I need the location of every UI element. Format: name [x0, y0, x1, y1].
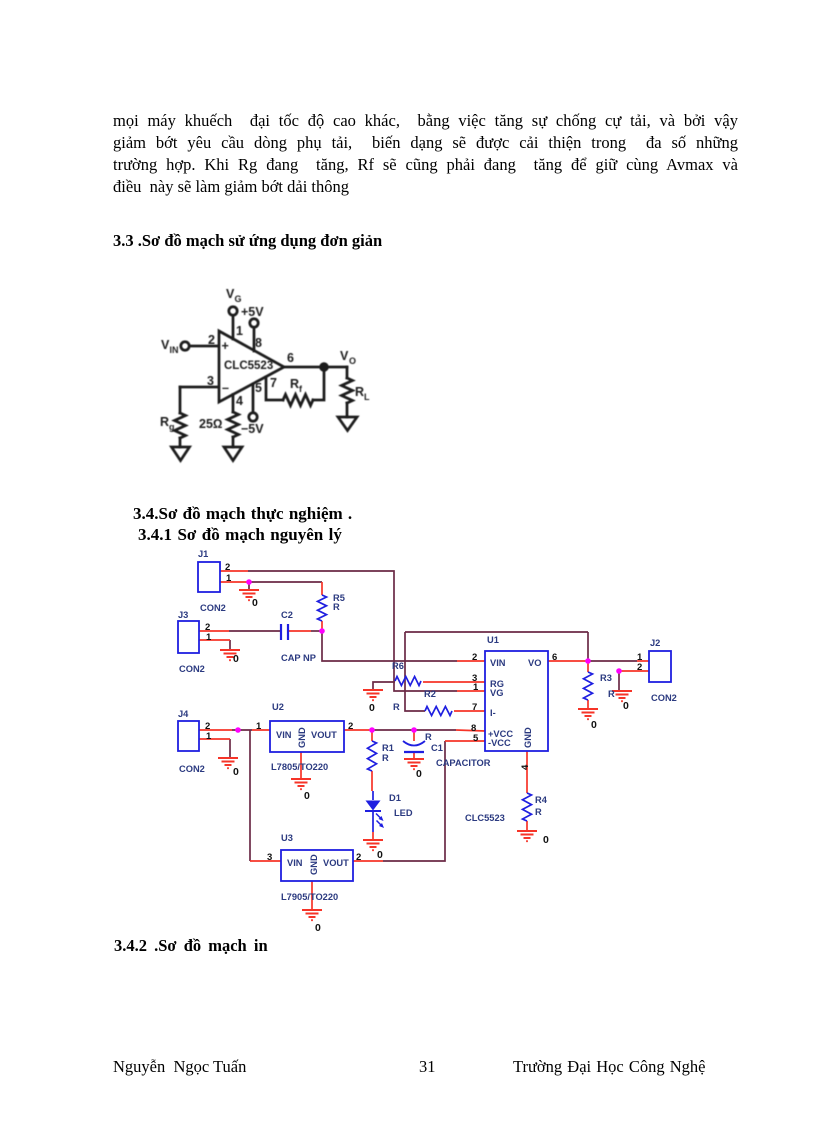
svg-text:J1: J1 [198, 549, 208, 559]
svg-text:0: 0 [543, 834, 549, 846]
svg-text:R: R [333, 602, 340, 612]
svg-text:1: 1 [226, 573, 232, 584]
svg-text:5: 5 [473, 733, 479, 744]
svg-text:R: R [608, 689, 615, 699]
svg-text:VIN: VIN [287, 858, 303, 868]
svg-text:R: R [425, 732, 432, 742]
svg-text:R4: R4 [535, 795, 548, 805]
svg-text:J2: J2 [650, 638, 660, 648]
svg-text:7: 7 [472, 702, 477, 713]
svg-text:4: 4 [520, 764, 531, 770]
svg-text:0: 0 [416, 768, 422, 780]
svg-text:L7805/TO220: L7805/TO220 [271, 762, 328, 772]
svg-text:3: 3 [267, 852, 272, 863]
svg-text:LED: LED [394, 808, 413, 818]
svg-text:R3: R3 [600, 673, 612, 683]
svg-text:R2: R2 [424, 689, 436, 699]
svg-text:U2: U2 [272, 702, 284, 712]
svg-text:VOUT: VOUT [323, 858, 349, 868]
svg-text:0: 0 [252, 597, 258, 609]
svg-text:2: 2 [356, 852, 361, 863]
svg-text:C2: C2 [281, 610, 293, 620]
svg-text:0: 0 [233, 766, 239, 778]
svg-text:I-: I- [490, 708, 496, 718]
svg-text:6: 6 [552, 652, 557, 663]
svg-text:R: R [393, 702, 400, 712]
svg-text:GND: GND [297, 727, 307, 748]
svg-text:2: 2 [225, 562, 230, 573]
svg-text:2: 2 [348, 721, 353, 732]
svg-text:U3: U3 [281, 833, 293, 843]
svg-text:CAP NP: CAP NP [281, 653, 316, 663]
svg-text:GND: GND [523, 727, 533, 748]
svg-text:0: 0 [315, 922, 321, 934]
svg-text:J3: J3 [178, 610, 188, 620]
svg-text:1: 1 [473, 682, 479, 693]
svg-text:VIN: VIN [490, 658, 506, 668]
svg-text:R6: R6 [392, 661, 404, 671]
svg-text:CLC5523: CLC5523 [465, 813, 505, 823]
svg-text:2: 2 [637, 662, 642, 673]
svg-text:-VCC: -VCC [488, 738, 511, 748]
svg-text:D1: D1 [389, 793, 401, 803]
svg-text:L7905/TO220: L7905/TO220 [281, 892, 338, 902]
svg-text:CON2: CON2 [179, 664, 205, 674]
svg-text:0: 0 [304, 790, 310, 802]
svg-text:CON2: CON2 [200, 603, 226, 613]
svg-text:VO: VO [528, 658, 541, 668]
svg-text:0: 0 [369, 702, 375, 714]
svg-text:0: 0 [591, 719, 597, 731]
svg-text:R: R [382, 753, 389, 763]
svg-text:R: R [535, 807, 542, 817]
svg-text:CON2: CON2 [651, 693, 677, 703]
svg-text:GND: GND [309, 854, 319, 875]
svg-text:0: 0 [233, 653, 239, 665]
svg-text:VIN: VIN [276, 730, 292, 740]
svg-text:J4: J4 [178, 709, 189, 719]
svg-text:CAPACITOR: CAPACITOR [436, 758, 491, 768]
svg-text:1: 1 [206, 731, 212, 742]
svg-text:1: 1 [256, 721, 262, 732]
svg-text:VOUT: VOUT [311, 730, 337, 740]
svg-text:0: 0 [377, 849, 383, 861]
svg-text:VG: VG [490, 688, 503, 698]
svg-text:CON2: CON2 [179, 764, 205, 774]
svg-text:C1: C1 [431, 743, 443, 753]
svg-text:1: 1 [206, 632, 212, 643]
svg-text:U1: U1 [487, 635, 499, 645]
svg-text:0: 0 [623, 700, 629, 712]
svg-text:R1: R1 [382, 743, 394, 753]
svg-text:2: 2 [472, 652, 477, 663]
